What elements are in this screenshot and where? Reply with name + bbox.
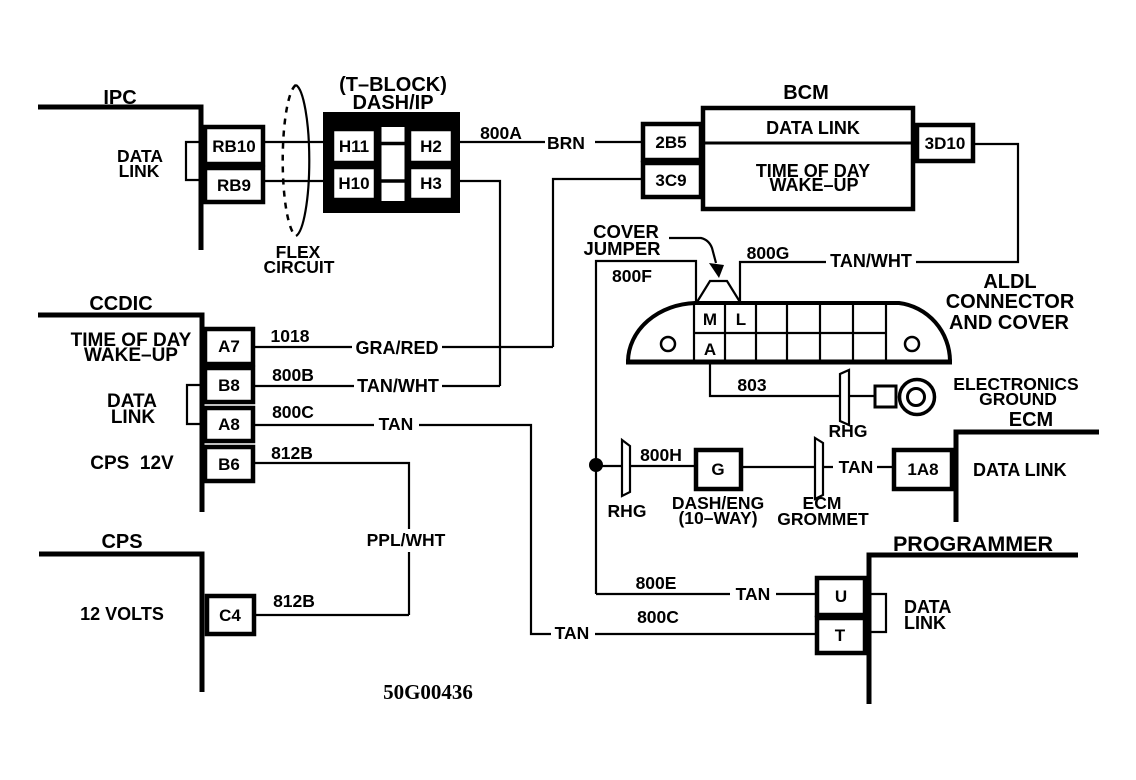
svg-text:CONNECTOR: CONNECTOR: [946, 291, 1075, 313]
svg-text:L: L: [736, 310, 746, 329]
pin T: [817, 618, 865, 653]
ALDL left mount hole: [661, 337, 675, 351]
cover jumper symbol: [697, 281, 740, 302]
junction node splice: [589, 458, 603, 472]
wire H3 to node down: [456, 181, 500, 386]
svg-text:RB9: RB9: [217, 176, 251, 195]
bracket for PROGRAMMER data link pins: [869, 594, 886, 632]
svg-text:DATA LINK: DATA LINK: [973, 460, 1067, 480]
svg-text:B8: B8: [218, 376, 240, 395]
ground terminal square: [875, 386, 896, 407]
wire 800C from A8: [255, 424, 374, 426]
svg-text:50G00436: 50G00436: [383, 680, 473, 704]
svg-text:H10: H10: [338, 174, 369, 193]
svg-text:B6: B6: [218, 455, 240, 474]
svg-text:LINK: LINK: [119, 161, 160, 181]
svg-text:800A: 800A: [480, 123, 522, 143]
svg-text:CCDIC: CCDIC: [89, 293, 152, 315]
wire TAN to U: [776, 593, 815, 595]
ground ring terminal: [900, 380, 935, 415]
svg-text:TAN/WHT: TAN/WHT: [357, 376, 439, 396]
svg-text:800F: 800F: [612, 266, 652, 286]
connector G (dash/eng 10-way): [696, 450, 741, 489]
svg-text:TAN: TAN: [839, 457, 874, 477]
pin C4: [207, 596, 254, 634]
svg-text:TAN: TAN: [736, 584, 771, 604]
svg-text:TAN: TAN: [379, 414, 414, 434]
pin H3: [409, 167, 453, 200]
wire TAN 800C to corner down: [419, 425, 551, 634]
svg-text:U: U: [835, 587, 847, 606]
wire 800H junction to G: [596, 465, 694, 467]
svg-text:ECM: ECM: [1009, 409, 1053, 431]
svg-text:800B: 800B: [272, 365, 314, 385]
pin H2: [409, 129, 453, 163]
svg-text:GROMMET: GROMMET: [777, 509, 869, 529]
svg-text:H3: H3: [420, 174, 442, 193]
wire TAN to 1A8: [877, 466, 894, 468]
svg-text:2B5: 2B5: [655, 133, 686, 152]
bracket for CCDIC data link pins: [187, 385, 203, 424]
svg-text:H11: H11: [339, 137, 369, 156]
grommet ECM: [815, 438, 823, 499]
T-block center terminal divider lower: [381, 179, 405, 183]
svg-text:DASH/IP: DASH/IP: [352, 92, 433, 114]
pin RB10: [205, 127, 263, 164]
svg-text:RB10: RB10: [212, 137, 255, 156]
T-block connector body: [323, 112, 460, 213]
pin A8: [205, 408, 253, 441]
pin 3C9: [643, 163, 701, 197]
pin RB9: [205, 168, 263, 202]
svg-text:AND COVER: AND COVER: [949, 312, 1070, 334]
svg-text:800G: 800G: [747, 243, 790, 263]
svg-text:CPS: CPS: [101, 531, 142, 553]
IPC component outline: [38, 107, 201, 250]
svg-text:A7: A7: [218, 337, 240, 356]
svg-text:LINK: LINK: [904, 613, 946, 633]
pin H11: [332, 129, 376, 163]
wire 800F from ALDL pin M to junction: [596, 261, 696, 594]
svg-text:BCM: BCM: [783, 82, 829, 104]
wire 800C TAN to T: [595, 633, 815, 635]
CCDIC component outline: [38, 315, 202, 512]
svg-text:GROUND: GROUND: [979, 389, 1057, 409]
ALDL pin grid: [694, 303, 886, 362]
grommet RHG at 803: [840, 370, 849, 425]
pin 2B5: [643, 124, 701, 160]
svg-text:WAKE–UP: WAKE–UP: [84, 345, 178, 366]
svg-text:BRN: BRN: [547, 133, 585, 153]
wire RB10 to H11: [265, 141, 323, 143]
BCM internal divider: [703, 142, 913, 145]
svg-text:H2: H2: [420, 137, 442, 156]
pin 3D10: [917, 125, 973, 161]
svg-text:C4: C4: [219, 606, 241, 625]
pin B8: [205, 368, 253, 402]
wire 812B from B6: [255, 463, 409, 529]
svg-text:TAN/WHT: TAN/WHT: [830, 251, 912, 271]
svg-text:3D10: 3D10: [925, 134, 966, 153]
svg-text:1A8: 1A8: [907, 460, 938, 479]
svg-text:LINK: LINK: [111, 407, 156, 428]
svg-text:M: M: [703, 310, 717, 329]
PROGRAMMER component outline: [869, 555, 1078, 704]
wire 800E from junction to U: [596, 593, 730, 595]
svg-text:TAN: TAN: [555, 623, 590, 643]
wire 812B from C4 to PPL/WHT: [256, 614, 409, 616]
wire 1018 from A7: [255, 346, 352, 348]
svg-text:803: 803: [737, 375, 766, 395]
svg-text:T: T: [835, 626, 846, 645]
svg-text:ALDL: ALDL: [983, 271, 1036, 293]
pin A7: [205, 329, 253, 364]
svg-text:JUMPER: JUMPER: [583, 238, 660, 259]
CPS component outline: [39, 554, 202, 692]
pin H10: [332, 167, 376, 200]
wire G to ECM grommet: [743, 466, 833, 468]
svg-text:A: A: [704, 340, 716, 359]
svg-text:CIRCUIT: CIRCUIT: [264, 257, 335, 277]
wire 803 from ALDL pin A: [710, 363, 874, 396]
svg-text:CPS 12V: CPS 12V: [90, 453, 174, 474]
wire 800G to ALDL pin L: [740, 262, 826, 302]
wire RB9 to H10: [265, 180, 323, 182]
bracket for IPC data link pins: [186, 142, 203, 180]
cover jumper arrowhead: [709, 263, 724, 278]
pin 1A8: [894, 450, 952, 489]
ECM component outline: [956, 432, 1099, 522]
svg-text:G: G: [711, 460, 724, 479]
T-block center channel: [382, 127, 405, 201]
flex circuit ellipse: [296, 85, 309, 236]
wire TAN/WHT to H3 node: [442, 385, 500, 387]
grommet RHG (left): [622, 440, 630, 496]
svg-text:12 VOLTS: 12 VOLTS: [80, 604, 164, 624]
svg-text:RHG: RHG: [829, 421, 868, 441]
svg-text:800H: 800H: [640, 445, 682, 465]
ALDL connector shell: [628, 303, 950, 361]
svg-text:800E: 800E: [636, 573, 677, 593]
svg-text:812B: 812B: [271, 443, 313, 463]
wire 3C9 to node down: [553, 179, 641, 347]
cover jumper leader line: [669, 238, 716, 263]
BCM module box: [703, 108, 913, 209]
svg-text:IPC: IPC: [103, 87, 136, 109]
svg-text:DATA LINK: DATA LINK: [766, 118, 860, 138]
wire 800A from H2: [456, 141, 545, 143]
svg-text:(10–WAY): (10–WAY): [678, 508, 757, 528]
wire 3D10 to 800G corner: [916, 144, 1018, 262]
pin B6: [205, 447, 253, 481]
pin U: [817, 578, 865, 615]
svg-text:PROGRAMMER: PROGRAMMER: [893, 532, 1054, 556]
svg-text:PPL/WHT: PPL/WHT: [367, 530, 446, 550]
wire BRN to 2B5: [595, 141, 641, 143]
ALDL right mount hole: [905, 337, 919, 351]
wire GRA/RED to 3C9 node: [442, 346, 553, 348]
svg-text:A8: A8: [218, 415, 240, 434]
wire PPL/WHT lower segment: [408, 552, 410, 615]
svg-text:RHG: RHG: [608, 501, 647, 521]
svg-text:WAKE–UP: WAKE–UP: [769, 175, 858, 195]
T-block center terminal divider upper: [381, 142, 405, 146]
svg-text:3C9: 3C9: [655, 171, 686, 190]
svg-text:812B: 812B: [273, 591, 315, 611]
svg-text:GRA/RED: GRA/RED: [355, 338, 438, 358]
svg-text:800C: 800C: [272, 402, 314, 422]
svg-text:800C: 800C: [637, 607, 679, 627]
svg-text:1018: 1018: [271, 326, 310, 346]
ALDL connector base line: [626, 360, 952, 365]
wire 800B from B8: [255, 385, 354, 387]
